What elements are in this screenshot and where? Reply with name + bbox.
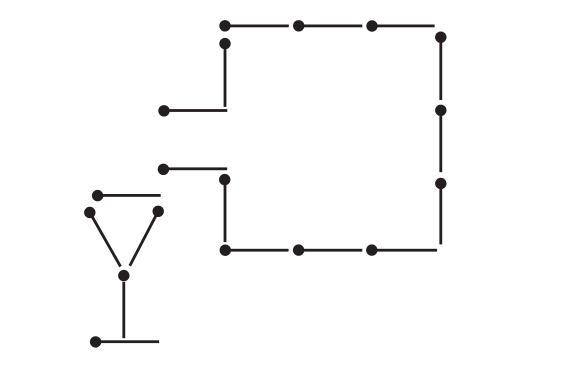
wire square top edge segment 2 — [299, 25, 363, 28]
node LL — [219, 174, 230, 185]
wire square bottom edge segment 2 — [299, 249, 363, 252]
wire square right edge segment 1 — [439, 37, 442, 100]
node T1 — [219, 20, 230, 31]
node R2 — [435, 105, 446, 116]
node T3 — [366, 20, 377, 31]
wire square right edge segment 2 — [439, 110, 442, 172]
wire square left upper segment — [224, 44, 227, 107]
wire square bottom edge segment 1 — [225, 249, 288, 252]
node TR — [435, 32, 446, 43]
node glass base left — [90, 336, 101, 347]
wire glass bowl left diagonal — [90, 213, 121, 267]
wire square top edge segment 1 — [225, 25, 289, 28]
wire glass bowl right diagonal — [130, 211, 158, 265]
wire notch 1 horizontal — [164, 109, 227, 112]
node glass rim right — [153, 206, 164, 217]
node glass rim top — [92, 190, 103, 201]
wire glass rim line — [98, 194, 161, 197]
node B2 — [293, 244, 304, 255]
node LU — [219, 38, 230, 49]
node T2 — [293, 20, 304, 31]
node N1 — [158, 105, 169, 116]
node glass bowl bottom — [118, 270, 129, 281]
wire square bottom edge segment 3 — [372, 249, 437, 252]
wire glass base line — [96, 340, 160, 343]
node glass rim left — [84, 207, 95, 218]
node R3 — [435, 178, 446, 189]
wire notch 2 horizontal — [163, 167, 227, 170]
node N2 — [158, 164, 169, 175]
wire square left lower segment — [224, 180, 227, 243]
wire square right edge segment 3 — [439, 184, 442, 245]
wire glass stem — [122, 282, 125, 338]
wire square top edge segment 3 — [372, 25, 435, 28]
node BL — [220, 245, 231, 256]
node B3 — [366, 244, 377, 255]
